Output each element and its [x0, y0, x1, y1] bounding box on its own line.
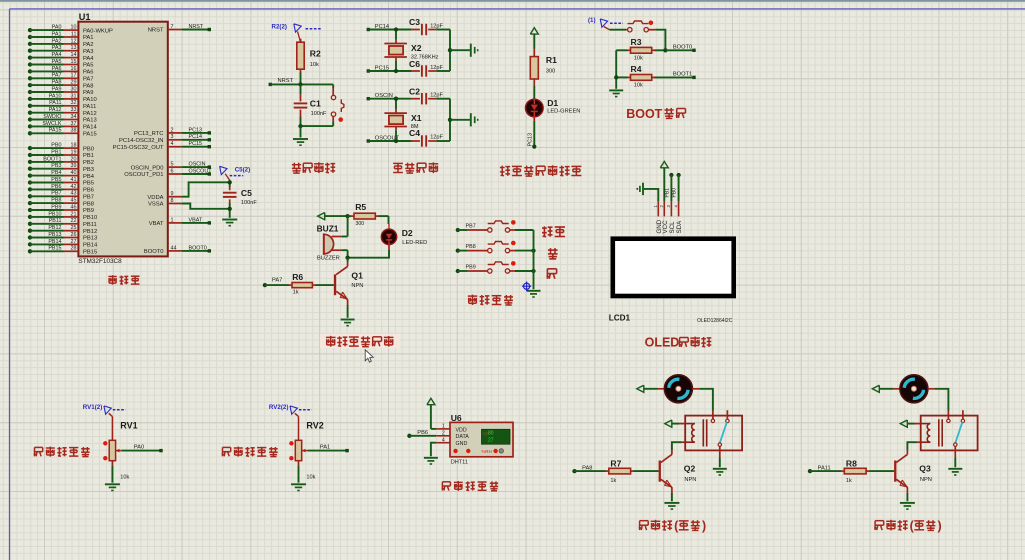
svg-text:300: 300 [546, 69, 555, 75]
svg-text:C3: C3 [409, 17, 420, 27]
svg-text:PB14: PB14 [83, 243, 98, 249]
svg-text:VDD: VDD [456, 427, 467, 433]
svg-text:PB3: PB3 [83, 167, 94, 173]
svg-text:11: 11 [71, 31, 77, 37]
svg-text:U1: U1 [79, 12, 91, 22]
svg-text:SWCLK: SWCLK [42, 121, 62, 127]
svg-text:PC15: PC15 [375, 65, 389, 71]
svg-text:12pF: 12pF [430, 93, 443, 99]
svg-text:3: 3 [171, 134, 174, 140]
svg-text:DATA: DATA [456, 434, 470, 440]
svg-text:15: 15 [71, 59, 77, 65]
svg-text:PA4: PA4 [83, 56, 94, 62]
svg-text:PC14-OSC32_IN: PC14-OSC32_IN [119, 138, 163, 144]
svg-text:DHT11: DHT11 [451, 460, 468, 466]
svg-text:5: 5 [171, 162, 174, 168]
svg-text:VSSA: VSSA [148, 202, 164, 208]
svg-text:PA7: PA7 [83, 77, 94, 83]
svg-text:PB13: PB13 [48, 232, 61, 238]
svg-text:R1: R1 [546, 55, 557, 65]
svg-text:PB15: PB15 [83, 250, 97, 256]
svg-text:PB4: PB4 [51, 170, 61, 176]
svg-text:BOOT0: BOOT0 [189, 245, 207, 251]
svg-text:(1): (1) [588, 17, 596, 24]
svg-text:PB1: PB1 [664, 188, 670, 198]
svg-text:2: 2 [171, 127, 174, 133]
svg-text:LED-GREEN: LED-GREEN [547, 109, 580, 115]
svg-text:PA2: PA2 [83, 42, 94, 48]
svg-text:46: 46 [71, 204, 77, 210]
svg-text:PB5: PB5 [51, 177, 61, 183]
svg-text:NPN: NPN [684, 477, 696, 483]
svg-text:OLED12864I2C: OLED12864I2C [697, 318, 733, 324]
svg-text:PA8: PA8 [83, 83, 94, 89]
svg-text:OSCOUT: OSCOUT [189, 168, 213, 174]
svg-text:26: 26 [71, 232, 77, 238]
svg-text:PA12: PA12 [83, 111, 97, 117]
svg-text:PA6: PA6 [52, 66, 62, 72]
svg-text:R7: R7 [610, 459, 621, 469]
svg-text:PB15: PB15 [48, 246, 61, 252]
svg-text:Q2: Q2 [684, 464, 696, 474]
svg-text:OSCOUT_PD1: OSCOUT_PD1 [124, 172, 163, 178]
svg-text:100nF: 100nF [311, 111, 327, 117]
svg-text:RV1(2): RV1(2) [83, 404, 103, 411]
svg-text:38: 38 [71, 128, 77, 134]
svg-text:BOOT: BOOT [626, 107, 662, 121]
svg-text:PA0: PA0 [134, 445, 144, 451]
svg-text:10k: 10k [306, 475, 315, 481]
svg-text:R3: R3 [631, 37, 642, 47]
svg-text:X1: X1 [411, 113, 422, 123]
svg-text:PC15-OSC32_OUT: PC15-OSC32_OUT [113, 145, 164, 151]
svg-text:10: 10 [71, 25, 77, 31]
svg-text:16: 16 [71, 66, 77, 72]
svg-text:R4: R4 [631, 64, 642, 74]
svg-text:300: 300 [356, 221, 365, 227]
svg-text:41: 41 [71, 177, 77, 183]
svg-text:PB7: PB7 [83, 195, 94, 201]
svg-text:GND: GND [456, 441, 468, 447]
svg-text:D2: D2 [402, 228, 413, 238]
svg-text:VBAT: VBAT [189, 217, 203, 223]
svg-text:45: 45 [71, 198, 77, 204]
svg-text:PB0: PB0 [83, 146, 94, 152]
svg-text:PA8: PA8 [582, 465, 592, 471]
svg-text:37: 37 [71, 121, 77, 127]
svg-text:NRST: NRST [278, 78, 294, 84]
svg-text:R2: R2 [310, 48, 321, 58]
svg-text:40: 40 [71, 170, 77, 176]
svg-text:42: 42 [71, 184, 77, 190]
svg-text:PA7: PA7 [52, 73, 62, 79]
svg-text:): ) [938, 519, 942, 533]
svg-text:PA7: PA7 [272, 278, 282, 284]
svg-text:7: 7 [171, 24, 174, 30]
svg-text:6: 6 [171, 168, 174, 174]
svg-text:PB10: PB10 [83, 215, 97, 221]
svg-text:12pF: 12pF [430, 134, 443, 140]
svg-text:PC14: PC14 [375, 24, 389, 30]
svg-text:Q1: Q1 [351, 271, 363, 281]
svg-text:PA1: PA1 [83, 35, 94, 41]
svg-text:12pF: 12pF [430, 65, 443, 71]
svg-text:14: 14 [71, 52, 77, 58]
svg-text:PA6: PA6 [83, 70, 94, 76]
svg-text:PB3: PB3 [51, 163, 61, 169]
svg-text:BOOT0: BOOT0 [144, 249, 164, 255]
svg-text:27: 27 [71, 239, 77, 245]
svg-text:100nF: 100nF [241, 200, 257, 206]
svg-text:PB11: PB11 [49, 218, 62, 224]
svg-text:PB8: PB8 [466, 244, 476, 250]
svg-text:1k: 1k [293, 290, 299, 296]
svg-text:31: 31 [71, 93, 77, 99]
svg-text:32: 32 [71, 100, 77, 106]
svg-text:12: 12 [71, 38, 77, 44]
svg-text:SWDIO: SWDIO [43, 114, 61, 120]
svg-text:PB13: PB13 [83, 236, 97, 242]
svg-text:PA9: PA9 [83, 90, 94, 96]
svg-text:VDDA: VDDA [147, 195, 163, 201]
svg-text:80: 80 [488, 431, 494, 437]
svg-text:C5(2): C5(2) [235, 167, 250, 174]
svg-text:VCC: VCC [662, 220, 669, 234]
svg-text:PA11: PA11 [83, 104, 96, 110]
svg-text:OSCIN_PD0: OSCIN_PD0 [131, 165, 164, 171]
svg-text:1k: 1k [846, 478, 852, 484]
svg-text:10k: 10k [634, 56, 643, 62]
svg-text:PA0-WKUP: PA0-WKUP [83, 28, 113, 34]
svg-text:PB9: PB9 [466, 265, 476, 271]
svg-text:): ) [702, 519, 706, 533]
svg-text:PA12: PA12 [49, 107, 62, 113]
svg-text:2: 2 [442, 431, 445, 437]
svg-text:R5: R5 [355, 202, 366, 212]
svg-text:12pF: 12pF [430, 24, 443, 30]
svg-text:PB6: PB6 [83, 188, 94, 194]
svg-text:NPN: NPN [351, 283, 363, 289]
svg-text:33: 33 [71, 107, 77, 113]
svg-text:RV2(2): RV2(2) [269, 404, 289, 411]
svg-text:C5: C5 [241, 188, 252, 198]
svg-text:LCD1: LCD1 [609, 314, 631, 323]
svg-text:PB9: PB9 [83, 208, 94, 214]
svg-text:RV1: RV1 [120, 420, 137, 430]
svg-text:C2: C2 [409, 86, 420, 96]
svg-text:9: 9 [171, 191, 174, 197]
svg-text:D1: D1 [547, 98, 558, 108]
svg-text:SDA: SDA [676, 220, 683, 234]
svg-text:OSCIN: OSCIN [375, 93, 393, 99]
svg-text:4: 4 [442, 437, 445, 443]
svg-text:1: 1 [171, 217, 174, 223]
svg-text:R8: R8 [846, 459, 857, 469]
svg-text:PA3: PA3 [52, 45, 62, 51]
svg-text:BOOT1: BOOT1 [673, 72, 692, 78]
svg-text:PA5: PA5 [83, 63, 94, 69]
svg-text:PA15: PA15 [49, 128, 62, 134]
svg-text:29: 29 [71, 80, 77, 86]
svg-text:PA4: PA4 [52, 52, 62, 58]
svg-text:C1: C1 [310, 99, 321, 109]
svg-text:PB6: PB6 [417, 430, 428, 436]
svg-text:30: 30 [71, 86, 77, 92]
svg-text:PB7: PB7 [51, 191, 61, 197]
svg-text:PB7: PB7 [466, 224, 476, 230]
svg-text:PA11: PA11 [818, 465, 831, 471]
svg-text:27: 27 [488, 438, 494, 444]
svg-text:PA14: PA14 [83, 125, 98, 131]
svg-text:%RH: %RH [482, 449, 492, 454]
svg-text:PB8: PB8 [83, 201, 94, 207]
svg-text:SCL: SCL [669, 221, 676, 234]
svg-text:PC15: PC15 [189, 141, 203, 147]
svg-text:PC13: PC13 [527, 133, 533, 147]
svg-text:18: 18 [71, 143, 77, 149]
svg-text:22: 22 [71, 218, 77, 224]
svg-text:1k: 1k [610, 478, 616, 484]
svg-text:10k: 10k [634, 83, 643, 89]
svg-text:4: 4 [171, 141, 174, 147]
svg-text:13: 13 [71, 45, 77, 51]
svg-text:PA13: PA13 [83, 118, 97, 124]
svg-text:C6: C6 [409, 59, 420, 69]
svg-text:PB6: PB6 [51, 184, 61, 190]
svg-text:BOOT1: BOOT1 [43, 156, 61, 162]
svg-text:X2: X2 [411, 43, 422, 53]
svg-text:RV2: RV2 [306, 420, 323, 430]
svg-text:39: 39 [71, 163, 77, 169]
svg-text:PB5: PB5 [83, 181, 94, 187]
svg-text:10k: 10k [310, 62, 319, 68]
svg-text:PB9: PB9 [51, 204, 61, 210]
svg-text:PA3: PA3 [83, 49, 94, 55]
svg-text:PA10: PA10 [49, 93, 62, 99]
svg-text:PB0: PB0 [51, 143, 61, 149]
svg-text:LED-RED: LED-RED [402, 240, 427, 246]
svg-text:PA11: PA11 [49, 100, 61, 106]
svg-text:PB1: PB1 [83, 153, 94, 159]
svg-text:PA10: PA10 [83, 97, 97, 103]
svg-text:PB12: PB12 [83, 229, 97, 235]
svg-text:PA8: PA8 [52, 80, 62, 86]
svg-text:OSCIN: OSCIN [189, 162, 206, 168]
svg-text:PA2: PA2 [52, 38, 62, 44]
svg-text:PB2: PB2 [83, 160, 94, 166]
svg-text:17: 17 [71, 73, 77, 79]
svg-text:PC13_RTC: PC13_RTC [134, 131, 164, 137]
svg-text:21: 21 [71, 211, 77, 217]
svg-text:NRST: NRST [148, 28, 164, 34]
svg-text:PB12: PB12 [48, 225, 61, 231]
svg-text:NRST: NRST [189, 24, 204, 30]
svg-text:25: 25 [71, 225, 77, 231]
svg-text:PA9: PA9 [52, 86, 62, 92]
svg-text:19: 19 [71, 149, 77, 155]
svg-text:PB0: PB0 [672, 188, 678, 198]
svg-text:PA5: PA5 [52, 59, 62, 65]
svg-text:8: 8 [171, 198, 174, 204]
svg-text:PA1: PA1 [52, 31, 62, 37]
svg-text:STM32F103C8: STM32F103C8 [78, 258, 122, 265]
svg-text:PA1: PA1 [320, 445, 330, 451]
svg-text:BUZZER: BUZZER [317, 255, 340, 261]
svg-text:PA0: PA0 [52, 25, 62, 31]
svg-text:PC13: PC13 [189, 127, 203, 133]
svg-text:PB11: PB11 [83, 222, 97, 228]
svg-text:R2(2): R2(2) [272, 24, 287, 31]
svg-text:28: 28 [71, 246, 77, 252]
svg-text:OLED: OLED [645, 335, 680, 349]
svg-text:R6: R6 [292, 272, 303, 282]
svg-text:C4: C4 [409, 128, 420, 138]
svg-text:PA15: PA15 [83, 132, 97, 138]
svg-text:34: 34 [71, 114, 77, 120]
svg-text:20: 20 [71, 156, 77, 162]
svg-text:1: 1 [442, 424, 445, 430]
svg-text:PB14: PB14 [48, 239, 61, 245]
svg-text:10k: 10k [120, 475, 129, 481]
svg-text:VBAT: VBAT [149, 221, 164, 227]
svg-text:PB10: PB10 [48, 211, 61, 217]
svg-text:PB1: PB1 [51, 149, 61, 155]
svg-text:Q3: Q3 [919, 464, 931, 474]
svg-text:NPN: NPN [920, 477, 932, 483]
svg-text:PB4: PB4 [83, 174, 95, 180]
svg-text:PB8: PB8 [51, 198, 61, 204]
svg-text:BOOT0: BOOT0 [673, 44, 692, 50]
svg-text:44: 44 [171, 245, 177, 251]
svg-text:PC14: PC14 [189, 134, 203, 140]
svg-text:U6: U6 [451, 413, 462, 423]
svg-text:BUZ1: BUZ1 [317, 224, 339, 234]
svg-text:43: 43 [71, 191, 77, 197]
